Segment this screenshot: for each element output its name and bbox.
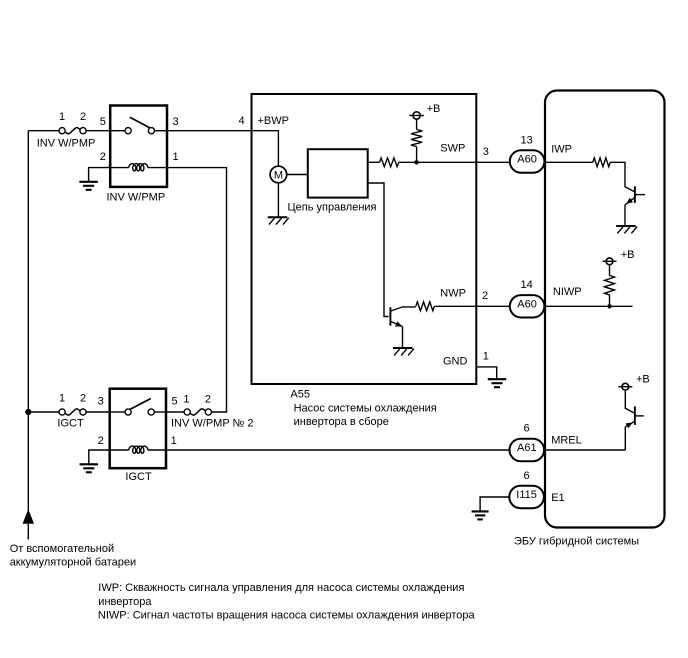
svg-text:NIWP: Сигнал частоты вращения: NIWP: Сигнал частоты вращения насоса сис… (98, 610, 476, 622)
wire left rail from battery (27, 131, 29, 540)
wire relay IGCT coil pin2 to ground (89, 450, 110, 464)
svg-text:+B: +B (636, 374, 650, 386)
label IWP (551, 144, 572, 156)
wire NIWP (544, 305, 632, 307)
wire rail to fuse INV W/PMP (28, 130, 59, 132)
resistor IWP (593, 158, 610, 167)
svg-text:INV W/PMP: INV W/PMP (107, 192, 166, 204)
pin 2 of fuse No2 (205, 393, 211, 405)
wire relay IGCT pin5 to fuse No2 (166, 411, 184, 413)
svg-text:+BWP: +BWP (258, 115, 289, 127)
wire MREL to Q MREL (624, 427, 626, 450)
label +B NIWP (621, 249, 635, 261)
svg-text:2: 2 (80, 111, 86, 123)
pin 4 of A55 (238, 115, 244, 127)
transistor Q MREL base bar (634, 406, 636, 425)
transistor Q IWP base bar (634, 186, 636, 203)
label NIWP (553, 286, 582, 298)
svg-text:IGCT: IGCT (125, 471, 152, 483)
label from auxiliary battery line1 (10, 543, 114, 555)
pin 5 relay INV W/PMP (100, 116, 106, 128)
svg-text:4: 4 (238, 115, 244, 127)
label +B MREL (636, 374, 650, 386)
svg-text:NWP: NWP (440, 288, 466, 300)
battery feed arrow (23, 509, 34, 524)
pin 3 of A55 (483, 146, 489, 158)
label pump assembly line2 (294, 416, 389, 428)
label SWP (440, 142, 465, 154)
label A55 (290, 389, 310, 401)
resistor NWP (416, 302, 435, 311)
svg-text:13: 13 (520, 134, 532, 146)
pin 1 of A55 (483, 351, 489, 363)
label GND (443, 355, 468, 367)
+B terminal MREL (618, 383, 632, 390)
fuse INV W/PMP No2 (184, 409, 211, 415)
transistor Q MREL base stub (635, 415, 644, 417)
relay INV W/PMP switch contacts (110, 128, 167, 134)
wire resistor to NWP pin (434, 305, 476, 307)
wire control box to transistor base (368, 183, 389, 317)
pin 1 relay IGCT (171, 435, 177, 447)
pin 5 relay IGCT (171, 396, 177, 408)
pin 2 of A55 (482, 290, 488, 302)
label control circuit (288, 201, 377, 213)
wire E1 to ground (480, 497, 509, 511)
wire IWP (544, 161, 592, 163)
svg-text:3: 3 (173, 116, 179, 128)
pin 1 of fuse INV W/PMP (59, 111, 65, 123)
+B terminal NIWP (603, 258, 617, 265)
wire fuse No2 up to relay coil pin1 (167, 168, 227, 412)
wire GND pin to ground (476, 367, 496, 379)
chassis ground of Q IWP (616, 226, 637, 233)
wire control box to resistor (368, 161, 380, 163)
control circuit box (308, 149, 368, 197)
pin 3 relay INV W/PMP (173, 116, 179, 128)
note IWP line1 (98, 582, 464, 594)
svg-text:IWP: IWP (551, 144, 572, 156)
svg-text:GND: GND (443, 355, 468, 367)
svg-text:2: 2 (98, 435, 104, 447)
transistor Q IWP emitter (625, 198, 634, 205)
svg-text:MREL: MREL (551, 435, 582, 447)
hybrid ECU box (545, 91, 665, 528)
svg-text:2: 2 (100, 151, 106, 163)
label NWP (440, 288, 466, 300)
transistor Q NWP collector (391, 307, 416, 311)
pin 1 of fuse IGCT (59, 392, 65, 404)
+B terminal in A55 (409, 112, 424, 119)
label fuse INV W/PMP No2 (171, 418, 254, 430)
wire rail to fuse IGCT (28, 411, 59, 413)
chassis ground of Q NWP (393, 348, 414, 355)
label from auxiliary battery line2 (10, 557, 136, 569)
svg-text:аккумуляторной батареи: аккумуляторной батареи (10, 557, 136, 569)
svg-text:1: 1 (59, 111, 65, 123)
wire motor to ground (277, 183, 279, 217)
pump assembly A55 box (252, 94, 477, 384)
svg-text:Цепь управления: Цепь управления (288, 201, 377, 213)
wire motor to control circuit (287, 174, 308, 176)
svg-text:NIWP: NIWP (553, 286, 582, 298)
label +BWP (258, 115, 289, 127)
svg-text:I115: I115 (516, 489, 537, 501)
relay IGCT switch blade (130, 399, 151, 410)
wire Q IWP emitter to ground (624, 204, 626, 225)
svg-text:3: 3 (483, 146, 489, 158)
fuse IGCT (59, 409, 86, 415)
svg-text:6: 6 (524, 422, 530, 434)
relay IGCT coil (110, 446, 166, 453)
ground for relay IGCT coil (80, 464, 99, 472)
ground for relay INV W/PMP coil (79, 182, 98, 190)
svg-text:+B: +B (427, 103, 441, 115)
motor M of pump (270, 166, 287, 183)
wire IGCT coil pin1 to connector A61 (166, 449, 509, 451)
svg-text:A61: A61 (517, 442, 537, 454)
wire emitter to ground (402, 326, 404, 347)
pin 2 of fuse INV W/PMP (80, 111, 86, 123)
pin 1 relay INV W/PMP (173, 151, 179, 163)
pin 2 relay INV W/PMP (100, 151, 106, 163)
svg-text:5: 5 (171, 396, 177, 408)
transistor Q NWP base bar (389, 307, 391, 325)
pin number 14 (520, 279, 532, 291)
ground for E1 (472, 511, 489, 519)
svg-text:A60: A60 (517, 154, 537, 166)
transistor Q MREL emitter (625, 422, 634, 429)
relay INV W/PMP switch blade (130, 117, 150, 128)
chassis ground of motor (268, 217, 289, 224)
relay INV W/PMP box (110, 106, 167, 187)
wire resistor to SWP pin (399, 161, 477, 163)
svg-text:ЭБУ гибридной системы: ЭБУ гибридной системы (514, 535, 639, 547)
svg-text:2: 2 (205, 393, 211, 405)
svg-text:INV W/PMP № 2: INV W/PMP № 2 (171, 418, 254, 430)
connector A60 pin 14 (510, 295, 545, 317)
svg-text:SWP: SWP (440, 142, 465, 154)
relay IGCT box (110, 389, 166, 469)
relay INV W/PMP coil (110, 164, 167, 171)
label relay INV W/PMP (107, 192, 166, 204)
wire fuse to relay pin5 (86, 130, 110, 132)
fuse INV W/PMP (59, 128, 86, 134)
pin number 6 A61 (524, 422, 530, 434)
connector A61 pin 6 (510, 439, 545, 461)
wire SWP to connector A60 (476, 161, 510, 163)
label pump assembly line1 (294, 402, 437, 414)
svg-text:E1: E1 (551, 492, 564, 504)
connector A60 pin 13 (510, 150, 545, 172)
svg-text:1: 1 (483, 351, 489, 363)
resistor SWP drive (380, 158, 399, 167)
svg-text:1: 1 (59, 392, 65, 404)
resistor SWP pullup (411, 119, 422, 162)
wire relay coil pin2 to ground (89, 168, 111, 182)
wire fuse IGCT to relay (86, 411, 110, 413)
wire MREL (544, 449, 625, 451)
svg-text:A60: A60 (517, 298, 537, 310)
label fuse IGCT (57, 417, 84, 429)
svg-text:6: 6 (524, 470, 530, 482)
label +B in A55 (427, 103, 441, 115)
svg-text:Насос системы охлаждения: Насос системы охлаждения (294, 402, 437, 414)
pin 3 relay IGCT (98, 396, 104, 408)
svg-text:14: 14 (520, 279, 532, 291)
label fuse INV W/PMP (37, 137, 96, 149)
label hybrid ECU (514, 535, 639, 547)
node SWP junction (414, 160, 418, 164)
svg-text:M: M (274, 170, 283, 182)
wire NWP to connector A60 (476, 305, 510, 307)
svg-text:инвертора в сборе: инвертора в сборе (294, 416, 389, 428)
node junction battery rail (25, 409, 31, 415)
svg-text:3: 3 (98, 396, 104, 408)
svg-text:2: 2 (482, 290, 488, 302)
pin 2 of fuse IGCT (80, 392, 86, 404)
label MREL (551, 435, 582, 447)
pin 2 relay IGCT (98, 435, 104, 447)
svg-text:инвертора: инвертора (98, 596, 152, 608)
svg-text:+B: +B (621, 249, 635, 261)
label E1 (551, 492, 564, 504)
connector I115 pin 6 (509, 486, 544, 508)
label relay IGCT (125, 471, 152, 483)
svg-text:INV W/PMP: INV W/PMP (37, 137, 96, 149)
note IWP line2 (98, 596, 152, 608)
resistor NIWP pullup (605, 265, 615, 306)
wire relay pin3 to A55 pin4 +BWP (167, 131, 278, 167)
wire resistor to Q IWP (610, 162, 634, 191)
svg-text:1: 1 (171, 435, 177, 447)
svg-text:1: 1 (173, 151, 179, 163)
ground for A55 GND (488, 379, 507, 387)
note NIWP (98, 610, 476, 622)
svg-text:1: 1 (183, 393, 189, 405)
pin 1 of fuse No2 (183, 393, 189, 405)
transistor Q NWP emitter (391, 321, 402, 326)
svg-text:A55: A55 (290, 389, 310, 401)
svg-text:2: 2 (80, 392, 86, 404)
svg-text:5: 5 (100, 116, 106, 128)
relay IGCT switch contacts (110, 409, 166, 415)
transistor Q IWP base stub (635, 194, 645, 196)
node NIWP junction (607, 304, 611, 308)
pin number 6 I115 (524, 470, 530, 482)
transistor Q MREL collector (625, 390, 634, 413)
svg-text:IWP: Скважность сигнала управл: IWP: Скважность сигнала управления для н… (98, 582, 464, 594)
svg-text:IGCT: IGCT (57, 417, 84, 429)
pin number 13 (520, 134, 532, 146)
svg-text:От вспомогательной: От вспомогательной (10, 543, 114, 555)
